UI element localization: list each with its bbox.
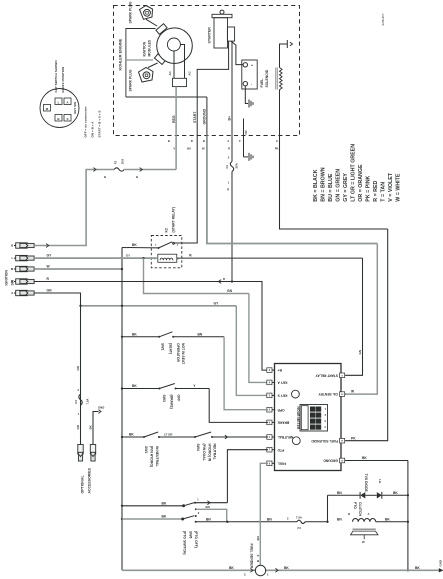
svg-text:20A: 20A — [234, 162, 238, 168]
wire PK down to module — [346, 229, 388, 441]
svg-text:BU: BU — [187, 147, 191, 151]
wire module FUEL to sender — [260, 463, 268, 565]
engine dashed enclosure — [114, 6, 300, 136]
wire key B to fuse — [34, 170, 114, 246]
flywheel — [157, 28, 193, 64]
svg-text:START RELAY: START RELAY — [315, 373, 338, 377]
svg-text:OPR: OPR — [277, 408, 285, 412]
key switch terminal A — [64, 98, 71, 105]
wire diode branch — [327, 495, 329, 522]
wire module ground — [346, 460, 408, 462]
svg-text:BU = BLUE: BU = BLUE — [328, 173, 334, 202]
svg-text:PK: PK — [351, 436, 356, 440]
svg-text:BK = BLACK: BK = BLACK — [313, 169, 319, 201]
wire kill to bottom module — [126, 59, 153, 61]
svg-text:D: D — [191, 139, 193, 143]
svg-text:START = B + A + S: START = B + A + S — [98, 111, 102, 138]
svg-text:GN: GN — [227, 289, 233, 293]
svg-text:R: R — [228, 147, 230, 151]
svg-text:ON = B + A: ON = B + A — [91, 121, 95, 138]
wire clutch to ground leg — [376, 521, 408, 523]
svg-text:SW1: SW1 — [144, 446, 148, 453]
wire B+ to module — [232, 282, 268, 371]
svg-text:GROUND: GROUND — [323, 459, 338, 463]
svg-text:CLUTCH: CLUTCH — [358, 502, 362, 516]
wire bottom ground bus — [122, 569, 255, 571]
module pin GROUND — [341, 460, 346, 462]
wire start BU — [182, 136, 197, 244]
svg-text:(BRAKE): (BRAKE) — [169, 395, 173, 409]
wire GN to module KEY A — [249, 294, 268, 383]
svg-text:FUEL: FUEL — [260, 79, 264, 88]
svg-text:LG: LG — [378, 479, 382, 484]
svg-text:FUEL SENDER: FUEL SENDER — [249, 544, 253, 569]
wire F3 to clutch — [305, 521, 328, 523]
wire seat to OPR — [173, 336, 224, 338]
svg-text:GROUND: GROUND — [203, 108, 207, 124]
svg-text:NOT IN SEAT: NOT IN SEAT — [181, 343, 185, 365]
wire bus to PTO pole 1 — [121, 505, 123, 507]
svg-text:BK: BK — [129, 433, 134, 437]
svg-text:F4: F4 — [74, 400, 78, 404]
svg-text:(P/N DUAL: (P/N DUAL — [202, 444, 206, 461]
TVS diode D1 — [359, 492, 361, 499]
key switch terminal B — [55, 115, 62, 122]
svg-text:C: C — [276, 139, 278, 143]
svg-text:OPTIONAL: OPTIONAL — [81, 475, 85, 494]
svg-text:(PTO SWITCH): (PTO SWITCH) — [183, 531, 187, 554]
wire kill bracket left/top — [126, 29, 156, 98]
oil switch terminal — [286, 40, 288, 48]
wire bus to neutral — [121, 436, 123, 438]
PTO switch pole 1 lower terminal — [195, 508, 197, 510]
svg-text:BN: BN — [206, 518, 211, 522]
svg-text:B: B — [203, 139, 205, 143]
wire key A to OR drop — [34, 293, 80, 445]
svg-text:BN: BN — [267, 517, 272, 521]
svg-text:A: A — [227, 139, 229, 143]
PTO clutch coil — [353, 519, 376, 522]
svg-text:PTO: PTO — [277, 448, 284, 452]
svg-text:REG: REG — [172, 115, 176, 123]
neutral switch SW1 contact — [143, 436, 145, 438]
wire fuel solenoid minus to ground — [245, 86, 248, 104]
wire GROUND from engine — [206, 97, 208, 136]
neutral switch SW5 contact — [194, 436, 196, 438]
svg-text:BN = BROWN: BN = BROWN — [320, 167, 326, 201]
fuse F1 — [231, 136, 233, 162]
svg-text:GN: GN — [47, 289, 53, 293]
svg-text:IN NEUTRAL: IN NEUTRAL — [155, 446, 159, 467]
wire PK — [280, 136, 388, 230]
wire coil PK down — [279, 90, 281, 136]
wire bus to PTO pole 2 — [121, 518, 123, 520]
wire solenoid to fuel solenoid — [231, 41, 243, 65]
svg-text:KEY SWITCH SHOWN: KEY SWITCH SHOWN — [54, 60, 58, 93]
svg-text:KOHLER ENGINE: KOHLER ENGINE — [119, 38, 123, 70]
svg-text:BK: BK — [229, 566, 234, 570]
svg-text:B: B — [104, 175, 106, 179]
svg-text:BK: BK — [284, 566, 289, 570]
svg-text:V = VIOLET: V = VIOLET — [388, 172, 394, 201]
svg-text:SW3: SW3 — [162, 395, 166, 402]
module pin FUEL — [268, 462, 275, 464]
GND arrow — [439, 568, 443, 572]
svg-text:(PTO OFF): (PTO OFF) — [194, 531, 198, 548]
svg-text:GND: GND — [438, 560, 442, 566]
module pin KEY A — [268, 381, 275, 383]
svg-text:SPARK PLUG: SPARK PLUG — [129, 1, 133, 23]
svg-text:SPARK PLUG: SPARK PLUG — [129, 69, 133, 91]
module box — [275, 364, 342, 471]
svg-text:GY: GY — [214, 301, 220, 305]
wire GN down to module — [346, 258, 363, 375]
svg-text:START: START — [193, 111, 197, 123]
svg-text:T = TAN: T = TAN — [380, 182, 386, 202]
fuse F3 — [297, 520, 305, 523]
svg-text:IGNITION: IGNITION — [4, 269, 8, 285]
svg-text:K2: K2 — [165, 228, 169, 232]
ignition module bottom — [154, 54, 165, 65]
svg-text:BK: BK — [162, 515, 167, 519]
svg-text:BK: BK — [132, 384, 137, 388]
module pin OIL SENTRY — [341, 393, 346, 395]
key switch terminal L — [55, 98, 62, 105]
wire PTO b to fuse F3 — [196, 521, 297, 523]
svg-text:NEUTRAL: NEUTRAL — [278, 435, 294, 439]
neutral switch link — [159, 436, 195, 438]
wire REG violet — [175, 87, 177, 170]
wire PTO pole 1 to module pin — [195, 502, 227, 504]
svg-text:20A: 20A — [121, 158, 125, 164]
svg-text:6250307: 6250307 — [381, 13, 385, 25]
rectifier-regulator — [173, 78, 187, 86]
PTO switch pole 2 lower terminal — [195, 521, 197, 523]
starter solenoid — [227, 27, 234, 41]
svg-text:V: V — [173, 147, 175, 151]
wire stator AC left — [173, 51, 175, 78]
ground engine internal — [248, 100, 250, 108]
spark plug top — [140, 6, 153, 20]
fuel sender — [255, 565, 265, 575]
wire bus to seat switch — [121, 336, 123, 338]
svg-text:L: L — [58, 100, 60, 104]
svg-text:B: B — [136, 175, 138, 179]
svg-text:GY: GY — [47, 254, 53, 258]
wire W down to module — [346, 244, 377, 395]
junction F1 key S — [231, 280, 233, 282]
wire W magneto — [207, 136, 377, 244]
svg-text:S: S — [256, 555, 260, 557]
module pin NEUTRAL — [268, 436, 275, 438]
coil core bars — [275, 68, 277, 90]
svg-text:BK: BK — [385, 517, 390, 521]
svg-text:BK: BK — [393, 491, 398, 495]
svg-text:R: R — [227, 188, 229, 192]
svg-text:R: R — [223, 277, 225, 281]
wire bus to brake switch — [121, 387, 123, 389]
wire accessory ground — [93, 412, 99, 445]
TVS diode D2 — [377, 492, 382, 498]
wire GY down to module — [236, 306, 268, 396]
key switch SW detail circle — [40, 89, 79, 128]
svg-text:BK: BK — [415, 566, 420, 570]
svg-text:OPERATOR: OPERATOR — [176, 343, 180, 362]
svg-text:B+: B+ — [228, 116, 232, 121]
svg-text:SOLENOID: SOLENOID — [265, 69, 269, 87]
wire diodes to ground leg — [382, 494, 408, 496]
fuel solenoid body — [242, 60, 257, 89]
svg-text:BK: BK — [362, 456, 367, 460]
module dip switches — [310, 407, 315, 412]
optional accessory connector 2 — [90, 445, 95, 455]
key switch terminal S — [64, 115, 71, 122]
coil winding — [280, 68, 283, 90]
wire bus to relay contact — [122, 247, 159, 249]
svg-text:KEY A: KEY A — [277, 381, 288, 385]
wire key L GY to coil — [34, 257, 158, 259]
wire GY branch down — [144, 258, 249, 293]
module display block — [300, 405, 328, 432]
seat switch SW2 contact — [158, 336, 160, 338]
svg-text:BU: BU — [256, 536, 260, 540]
module pin B+ — [268, 369, 275, 371]
PTO switch pole 1 — [183, 505, 185, 507]
wire coil to oil switch — [280, 44, 288, 68]
module pin BRAKE — [268, 421, 275, 423]
module LCD — [301, 406, 308, 430]
wire key M white — [34, 268, 122, 270]
ignition module top — [156, 24, 167, 35]
svg-text:A: A — [368, 512, 370, 516]
wire to chassis ground — [244, 156, 249, 158]
svg-text:B: B — [168, 139, 170, 143]
svg-text:OFF: OFF — [176, 395, 180, 402]
svg-text:GN: GN — [358, 349, 362, 354]
svg-text:BN: BN — [198, 332, 203, 336]
relay coil — [158, 254, 177, 262]
svg-text:OIL SENTRY: OIL SENTRY — [318, 392, 338, 396]
svg-text:L: L — [11, 256, 13, 260]
wire ground bus vertical — [121, 248, 123, 571]
svg-text:LT GR = LIGHT GREEN: LT GR = LIGHT GREEN — [350, 144, 356, 202]
svg-text:MODULES: MODULES — [148, 39, 152, 56]
svg-text:BK: BK — [162, 502, 167, 506]
module pin PTO — [268, 449, 275, 451]
svg-text:BN: BN — [206, 505, 210, 509]
fuel solenoid minus — [243, 82, 247, 86]
svg-text:(P/N HYDRO): (P/N HYDRO) — [150, 446, 154, 467]
svg-text:STARTER: STARTER — [208, 27, 212, 44]
svg-text:7.5A: 7.5A — [296, 516, 302, 520]
svg-text:S: S — [11, 280, 13, 284]
module pin START RELAY — [341, 374, 346, 376]
svg-text:(SEAT): (SEAT) — [168, 343, 172, 354]
svg-text:GND: GND — [98, 406, 104, 410]
wire brake down to BRAKE pin — [209, 389, 268, 423]
optional accessory connector 1 — [78, 445, 83, 455]
svg-text:F2: F2 — [114, 160, 118, 164]
svg-text:+: + — [251, 64, 253, 68]
svg-text:KEY SW: KEY SW — [73, 102, 77, 114]
svg-text:-: - — [251, 83, 252, 87]
svg-text:SW4: SW4 — [196, 444, 200, 451]
spark plug bottom — [139, 68, 154, 83]
relay K2 dashed box — [151, 236, 182, 268]
fuel solenoid plus — [243, 63, 247, 67]
svg-text:F3: F3 — [298, 526, 302, 530]
svg-text:IN OFF POSITION: IN OFF POSITION — [61, 66, 65, 93]
svg-text:BRAKE: BRAKE — [277, 421, 290, 425]
wire NC stub — [243, 119, 245, 157]
wire GY accessory — [81, 305, 237, 307]
wire engine ground bottom edge — [126, 96, 207, 98]
svg-text:C: C — [244, 572, 246, 576]
svg-text:SW2: SW2 — [160, 343, 164, 350]
svg-text:B+: B+ — [277, 368, 281, 372]
svg-text:PK: PK — [275, 147, 279, 151]
svg-text:OR = ORANGE: OR = ORANGE — [358, 164, 364, 202]
svg-text:PTO: PTO — [353, 502, 357, 509]
svg-text:R = RED: R = RED — [373, 180, 379, 201]
wire fuse to REG — [124, 169, 176, 171]
PTO switch pole 2 — [182, 518, 184, 520]
wire stator AC right — [180, 45, 184, 79]
svg-text:B: B — [256, 560, 260, 562]
module pin OPR — [268, 409, 275, 411]
wire seat down to module — [224, 337, 268, 410]
module pin FUEL SOLENOID — [341, 440, 346, 442]
relay contact — [158, 247, 160, 249]
svg-text:GY: GY — [126, 254, 130, 258]
svg-text:IGNITION: IGNITION — [143, 41, 147, 56]
wire starter B+ down — [231, 41, 233, 135]
svg-text:ACCESSORIES: ACCESSORIES — [87, 467, 91, 493]
wire PTO pole 1 lower link — [196, 509, 227, 522]
svg-text:BK: BK — [132, 332, 137, 336]
svg-text:GN = GREEN: GN = GREEN — [335, 169, 341, 202]
brake switch SW3 contact — [158, 388, 160, 390]
fuse F4 — [79, 394, 82, 405]
svg-text:SW6: SW6 — [188, 531, 192, 538]
module indicator circle 1 — [292, 390, 300, 398]
svg-text:LT GR: LT GR — [164, 433, 173, 437]
module indicator circle 2 — [292, 437, 300, 445]
wire neutral to module — [212, 436, 268, 438]
key switch terminal M — [44, 105, 51, 112]
svg-text:W = WHITE: W = WHITE — [395, 173, 401, 202]
svg-text:FUEL SOLENOID: FUEL SOLENOID — [311, 439, 338, 443]
svg-text:S: S — [66, 117, 68, 121]
svg-text:PK = PINK: PK = PINK — [365, 175, 371, 201]
svg-text:HOUR METER: HOUR METER — [296, 407, 300, 430]
svg-text:HYDRO) IN: HYDRO) IN — [208, 444, 212, 462]
chassis ground right of engine — [248, 153, 250, 161]
svg-text:FUEL: FUEL — [278, 461, 287, 465]
svg-text:BN: BN — [337, 517, 342, 521]
wire ground leg down — [407, 461, 409, 571]
svg-text:B: B — [348, 512, 350, 516]
svg-text:F1: F1 — [225, 165, 229, 169]
svg-text:7.5A: 7.5A — [85, 399, 89, 405]
svg-text:KEY S: KEY S — [277, 394, 288, 398]
svg-text:GY = GREY: GY = GREY — [343, 173, 349, 202]
module pin KEY S — [268, 394, 275, 396]
svg-text:W: W — [362, 540, 365, 544]
svg-text:NEUTRAL: NEUTRAL — [213, 444, 217, 460]
svg-text:OFF = no connection: OFF = no connection — [84, 107, 88, 138]
wire coil to start relay R — [177, 257, 363, 259]
PTO clutch frame — [351, 531, 379, 535]
PTO clutch core — [353, 528, 376, 530]
wire starter case to START — [197, 41, 228, 135]
svg-text:BN: BN — [337, 491, 342, 495]
svg-text:BK: BK — [132, 243, 137, 247]
starter motor — [212, 14, 232, 17]
bottom bus arrows — [250, 568, 253, 572]
fuse F2 — [114, 168, 124, 171]
wire brake to module — [176, 388, 210, 390]
svg-text:(START RELAY): (START RELAY) — [171, 207, 175, 232]
svg-text:TVS DIODE: TVS DIODE — [364, 474, 368, 493]
wire key S — [34, 281, 232, 283]
